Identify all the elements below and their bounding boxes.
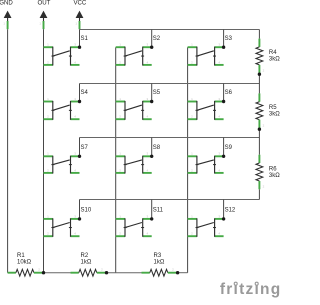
wire VCC stub to S1 [79, 29, 81, 47]
junction dot R5 pin2 [258, 128, 261, 131]
svg-text:2: 2 [119, 115, 121, 119]
svg-text:10kΩ: 10kΩ [17, 260, 32, 266]
pushbutton S10 [44, 214, 80, 237]
pushbutton S9 [188, 152, 224, 174]
wire column-3 rail [187, 47, 189, 273]
svg-text:2: 2 [191, 168, 193, 172]
svg-text:GND: GND [0, 0, 13, 7]
svg-text:3: 3 [218, 43, 220, 47]
svg-text:2: 2 [191, 115, 193, 119]
wire stub row1 col2 [151, 30, 153, 48]
svg-text:4: 4 [74, 115, 76, 119]
junction dot S4 pin 3 [78, 100, 81, 103]
wire row-4 bus [80, 199, 260, 201]
wire GND rail down left side [7, 29, 9, 273]
wire stub row3 col1 [79, 138, 81, 157]
svg-text:3: 3 [146, 97, 148, 101]
svg-text:S1: S1 [81, 36, 89, 42]
svg-text:1: 1 [191, 152, 193, 156]
svg-text:3: 3 [146, 152, 148, 156]
svg-text:2: 2 [191, 60, 193, 64]
wire row-2 bus [80, 83, 260, 85]
svg-text:1: 1 [47, 152, 49, 156]
wire OUT / column-1 rail [43, 29, 45, 273]
svg-text:4: 4 [74, 232, 76, 236]
svg-text:1kΩ: 1kΩ [154, 260, 165, 266]
svg-text:2: 2 [47, 115, 49, 119]
svg-text:3: 3 [218, 152, 220, 156]
svg-text:S9: S9 [225, 145, 233, 151]
net label GND [0, 0, 13, 29]
wire row-3 bus [80, 137, 260, 139]
svg-text:S11: S11 [153, 208, 164, 214]
svg-text:2: 2 [47, 168, 49, 172]
svg-text:1: 1 [119, 214, 121, 218]
wire stub row3 col2 [151, 138, 153, 157]
wire stub row2 col1 [79, 84, 81, 102]
svg-text:S5: S5 [153, 90, 161, 96]
svg-text:R6: R6 [269, 167, 277, 173]
svg-text:1: 1 [119, 97, 121, 101]
svg-text:1: 1 [119, 43, 121, 47]
svg-text:R4: R4 [269, 50, 277, 56]
svg-text:S12: S12 [225, 208, 236, 214]
junction dot S8 pin 3 [150, 155, 153, 158]
wire bottom bus R1 to R2 [42, 272, 70, 274]
net label VCC [73, 0, 86, 29]
svg-text:S8: S8 [153, 145, 161, 151]
wire stub row4 col3 [223, 200, 225, 219]
wire stub row4 col2 [151, 200, 153, 219]
svg-text:2: 2 [101, 268, 103, 272]
wire stub row1 col3 [223, 30, 225, 48]
junction dot S11 pin 3 [150, 217, 153, 220]
svg-text:4: 4 [146, 168, 148, 172]
junction dot S7 pin 3 [78, 155, 81, 158]
wire right rail top corner [258, 30, 260, 39]
resistor R5 3k [256, 93, 280, 128]
svg-text:3kΩ: 3kΩ [269, 173, 280, 179]
svg-text:2: 2 [119, 60, 121, 64]
svg-text:R2: R2 [81, 253, 89, 259]
svg-text:S2: S2 [153, 36, 161, 42]
pushbutton S7 [44, 152, 80, 174]
resistor R2 1k [71, 253, 106, 276]
junction dot R1-R2-col1 node [42, 271, 45, 274]
junction dot R4 pin2 [258, 73, 261, 76]
svg-text:1: 1 [191, 43, 193, 47]
svg-text:3: 3 [218, 214, 220, 218]
svg-text:4: 4 [74, 168, 76, 172]
svg-text:3: 3 [218, 97, 220, 101]
svg-text:3: 3 [74, 97, 76, 101]
svg-text:1: 1 [191, 97, 193, 101]
svg-text:2: 2 [47, 232, 49, 236]
svg-text:3: 3 [146, 43, 148, 47]
svg-text:4: 4 [218, 60, 220, 64]
svg-text:VCC: VCC [73, 0, 86, 7]
wire VCC top rail [80, 29, 260, 31]
svg-text:S3: S3 [225, 36, 233, 42]
svg-text:2: 2 [263, 69, 265, 73]
svg-text:4: 4 [218, 168, 220, 172]
svg-text:2: 2 [47, 60, 49, 64]
svg-text:2: 2 [263, 123, 265, 127]
wire stub row4 col1 [79, 200, 81, 219]
junction dot S9 pin 3 [222, 155, 225, 158]
svg-text:S10: S10 [81, 208, 92, 214]
svg-text:frıtzıng: frıtzıng [220, 281, 282, 298]
svg-text:R5: R5 [269, 105, 277, 111]
junction dot S6 pin 3 [222, 100, 225, 103]
pushbutton S8 [116, 152, 152, 174]
svg-text:1kΩ: 1kΩ [81, 260, 92, 266]
junction dot S10 pin 3 [78, 217, 81, 220]
net label OUT [37, 0, 50, 29]
resistor R1 10k [8, 253, 43, 276]
junction dot S2 pin 3 [150, 46, 153, 49]
svg-text:S6: S6 [225, 90, 233, 96]
pushbutton S1 [44, 43, 80, 66]
svg-text:1: 1 [47, 97, 49, 101]
pushbutton S6 [188, 97, 224, 120]
svg-text:3kΩ: 3kΩ [269, 56, 280, 62]
svg-text:2: 2 [172, 268, 174, 272]
svg-text:3: 3 [74, 152, 76, 156]
svg-text:3: 3 [146, 214, 148, 218]
resistor R3 1k [142, 253, 177, 276]
junction dot S12 pin 3 [222, 217, 225, 220]
wire right rail segment R4-R5 [258, 73, 260, 93]
svg-text:OUT: OUT [37, 0, 50, 7]
svg-text:R3: R3 [154, 253, 162, 259]
svg-text:4: 4 [146, 232, 148, 236]
svg-text:1: 1 [75, 22, 77, 26]
junction dot S3 pin 3 [222, 46, 225, 49]
wire column-2 rail [115, 47, 117, 273]
wire bottom bus R3 to column-3 rail [176, 272, 188, 274]
resistor R4 3k [256, 39, 280, 74]
svg-text:1: 1 [3, 22, 5, 26]
svg-text:1: 1 [191, 214, 193, 218]
svg-text:R1: R1 [17, 253, 25, 259]
wire stub row2 col3 [223, 84, 225, 102]
svg-text:2: 2 [119, 168, 121, 172]
wire stub row3 col3 [223, 138, 225, 157]
svg-text:3: 3 [74, 43, 76, 47]
wire stub row2 col2 [151, 84, 153, 102]
pushbutton S12 [188, 214, 224, 237]
svg-text:S7: S7 [81, 145, 89, 151]
svg-text:4: 4 [146, 115, 148, 119]
pushbutton S11 [116, 214, 152, 237]
svg-text:2: 2 [38, 268, 40, 272]
svg-text:1: 1 [47, 43, 49, 47]
svg-text:4: 4 [146, 60, 148, 64]
pushbutton S2 [116, 43, 152, 66]
svg-text:S4: S4 [81, 90, 89, 96]
svg-text:2: 2 [263, 185, 265, 189]
svg-text:1: 1 [119, 152, 121, 156]
junction dot S5 pin 3 [150, 100, 153, 103]
wire bottom bus R2 to R3 [105, 272, 141, 274]
svg-text:4: 4 [218, 115, 220, 119]
svg-text:1: 1 [47, 214, 49, 218]
junction dot R2-R3 node [105, 271, 108, 274]
pushbutton S5 [116, 97, 152, 120]
fritzing logo [220, 281, 282, 298]
junction dot R3-col3 node [176, 271, 179, 274]
svg-text:2: 2 [119, 232, 121, 236]
svg-text:1: 1 [39, 22, 41, 26]
svg-text:3: 3 [74, 214, 76, 218]
resistor R6 3k [256, 155, 280, 190]
pushbutton S3 [188, 43, 224, 66]
wire right rail bottom corner [258, 189, 260, 199]
junction dot S1 pin 3 [78, 46, 81, 49]
wire right rail segment R5-R6 [258, 128, 260, 155]
pushbutton S4 [44, 97, 80, 120]
svg-text:4: 4 [74, 60, 76, 64]
svg-text:3kΩ: 3kΩ [269, 111, 280, 117]
svg-text:4: 4 [218, 232, 220, 236]
svg-text:2: 2 [191, 232, 193, 236]
